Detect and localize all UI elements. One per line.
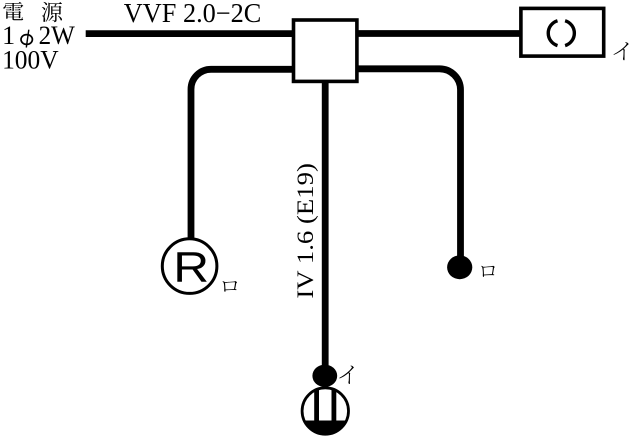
switch イ (filled circle) xyxy=(312,365,337,387)
right bar inside lampholder xyxy=(332,386,337,436)
junction box xyxy=(294,20,357,81)
round lampholder / hook ceiling symbol below switch イ xyxy=(300,386,351,437)
wire: source to junction box (main feed, VVF 2.0-2C) xyxy=(86,30,300,37)
wire: right branch, junction box to switch (ロ) xyxy=(352,69,461,258)
source label kanji 電 xyxy=(3,2,23,20)
switch ロ (filled circle, right branch) xyxy=(447,255,472,279)
parentheses symbol ( ) inside ceiling fixture xyxy=(548,21,557,46)
source label kanji 源 xyxy=(42,2,62,22)
angular hook ceiling fixture body (イ) xyxy=(521,8,604,56)
label イ for switch xyxy=(339,366,354,384)
svg-text:R: R xyxy=(173,243,209,291)
filled bottom segment of lampholder xyxy=(300,421,351,437)
svg-text:100V: 100V xyxy=(2,45,59,74)
wire: junction box to angular hook ceiling fixture (イ) xyxy=(352,30,521,37)
wire: left branch, junction box to lamp receptacle (ロ) xyxy=(191,69,300,240)
label ロ for lamp receptacle xyxy=(222,281,237,292)
left bar inside lampholder xyxy=(314,386,319,436)
svg-text:IV 1.6 (E19): IV 1.6 (E19) xyxy=(293,163,318,299)
svg-text:VVF 2.0−2C: VVF 2.0−2C xyxy=(124,0,261,28)
phi symbol of 1φ2W xyxy=(21,35,32,45)
wire: center branch, junction box down to switch (イ), IV 1.6 (E19) run xyxy=(322,80,329,368)
label イ for ceiling fixture xyxy=(613,42,628,60)
lamp receptacle R (ロ) xyxy=(162,239,217,294)
label ロ for switch xyxy=(481,266,495,277)
